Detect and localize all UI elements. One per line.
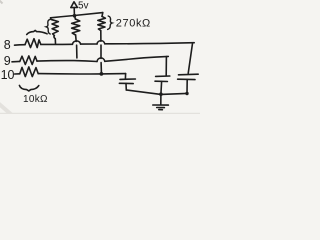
svg-text:9: 9 bbox=[4, 54, 11, 68]
svg-text:8: 8 bbox=[4, 38, 11, 52]
svg-text:10: 10 bbox=[1, 68, 15, 82]
svg-text:5v: 5v bbox=[78, 0, 89, 11]
svg-text:10kΩ: 10kΩ bbox=[23, 94, 48, 105]
svg-text:270kΩ: 270kΩ bbox=[116, 18, 151, 30]
